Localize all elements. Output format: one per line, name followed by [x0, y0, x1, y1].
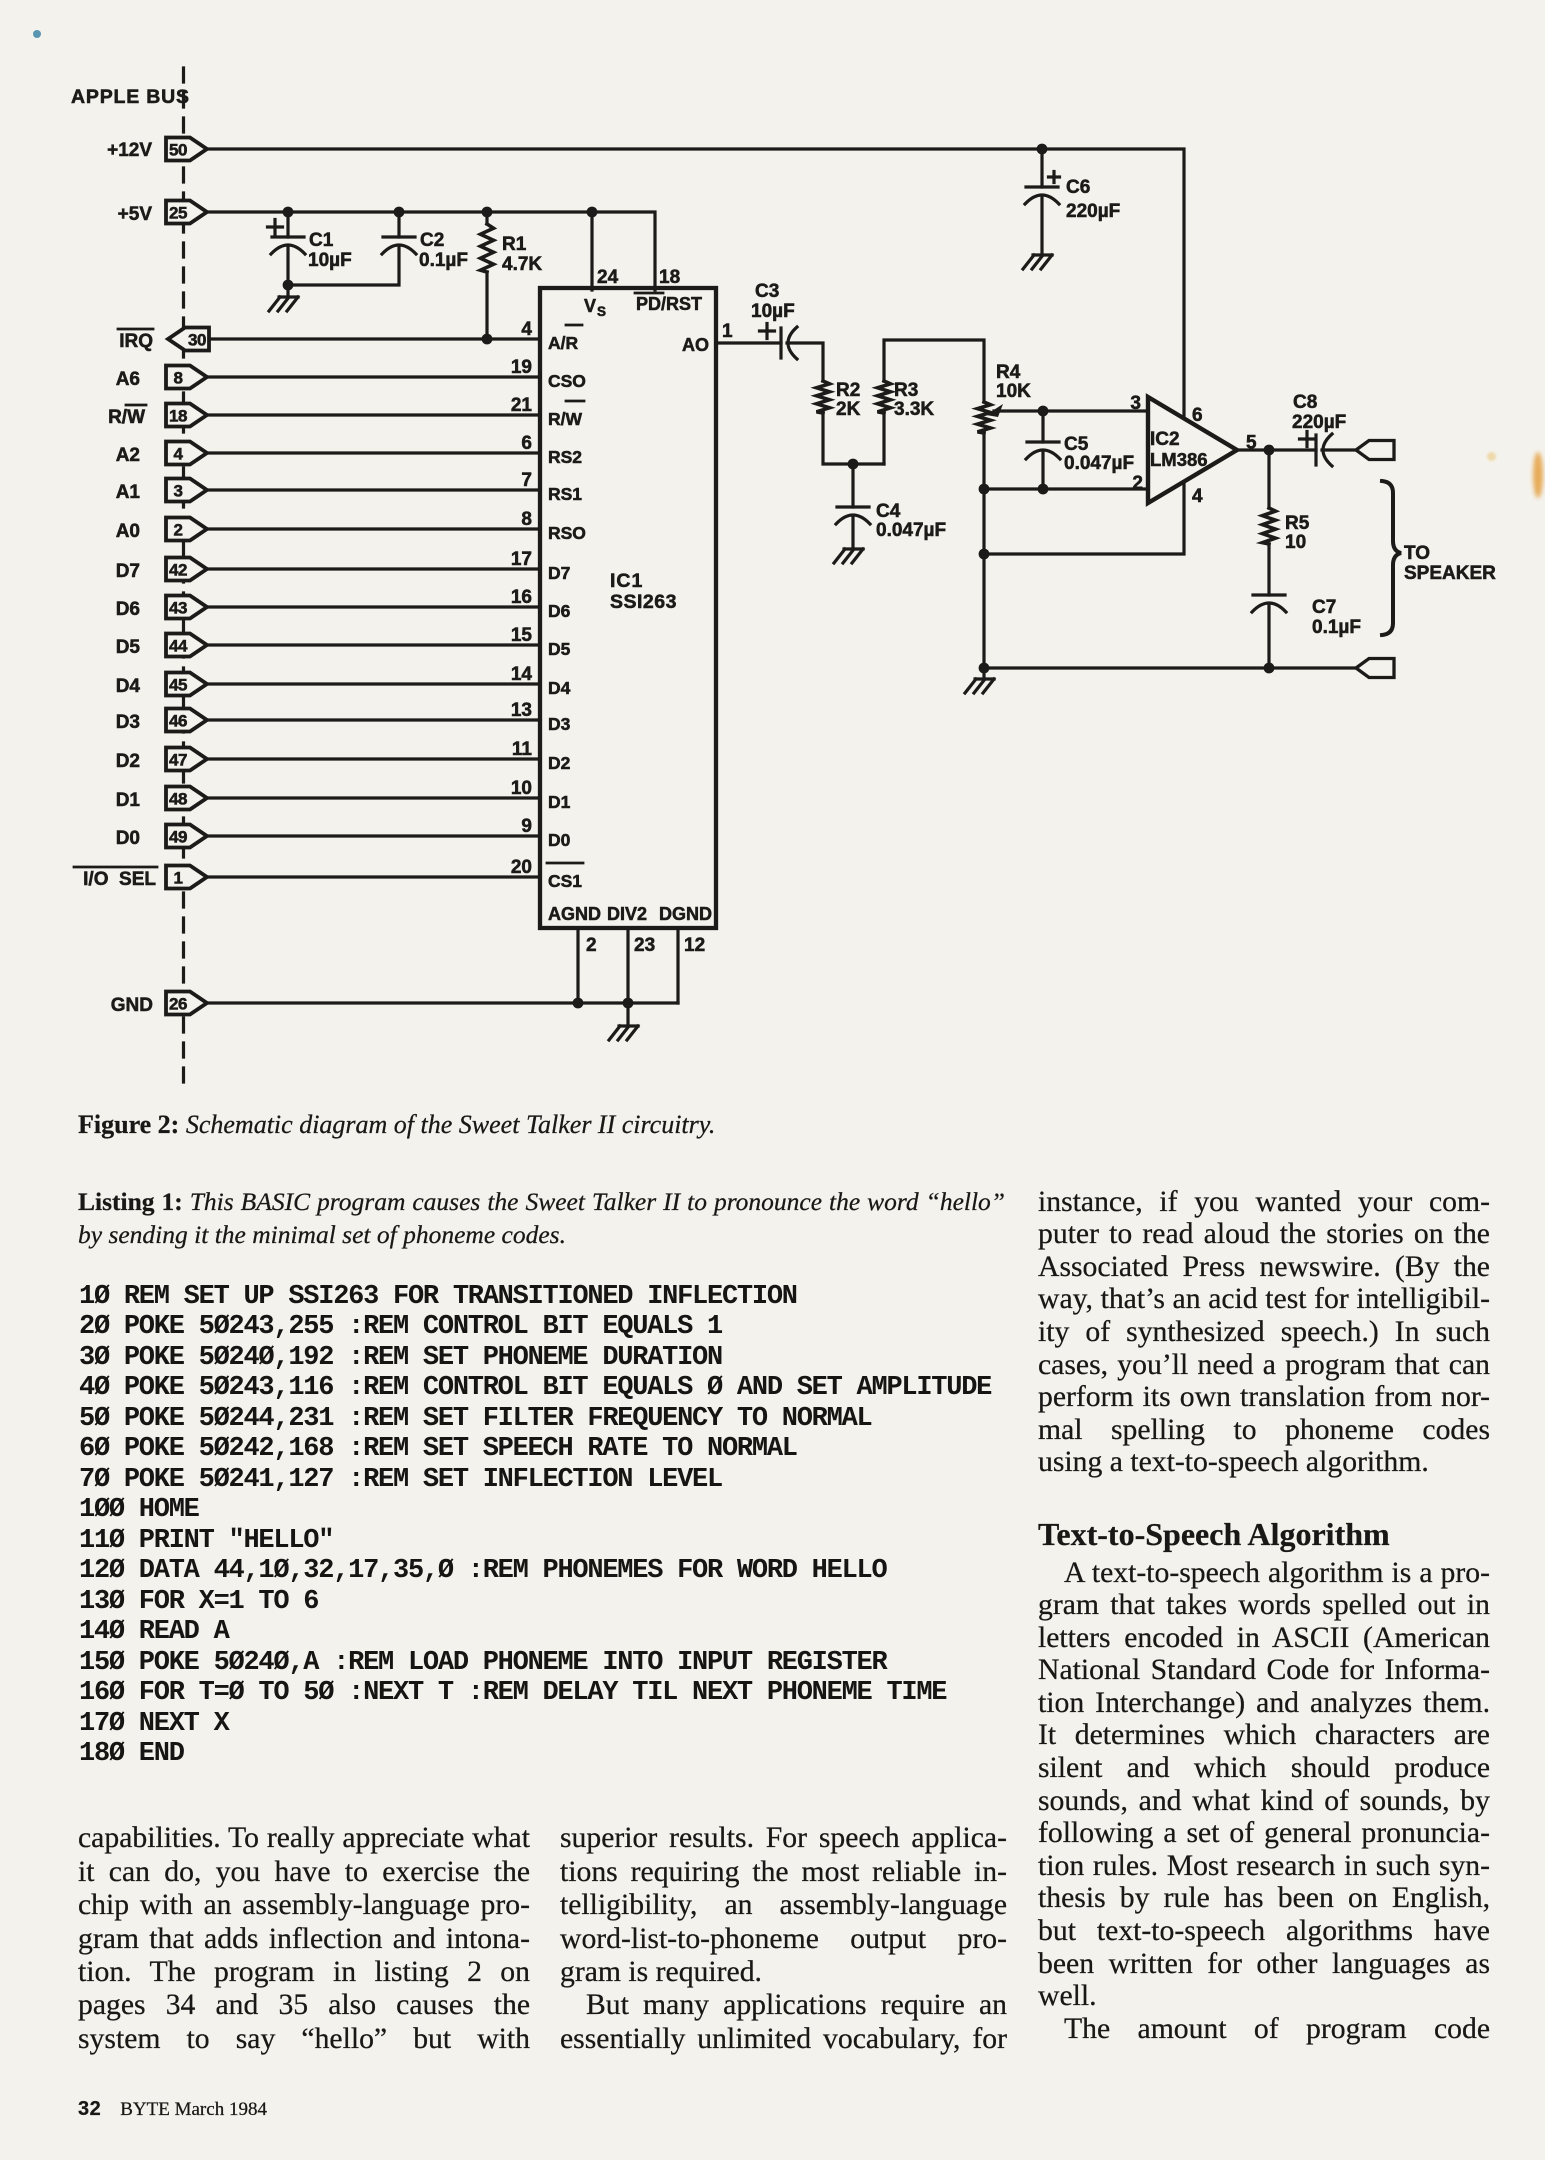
svg-text:2: 2: [1132, 473, 1143, 494]
svg-text:TO: TO: [1404, 543, 1430, 564]
svg-text:44: 44: [169, 637, 188, 656]
svg-text:9: 9: [521, 816, 532, 837]
svg-text:2: 2: [174, 521, 183, 540]
svg-text:46: 46: [169, 712, 187, 731]
svg-text:50: 50: [169, 141, 187, 160]
svg-text:C5: C5: [1064, 434, 1089, 455]
svg-text:D2: D2: [548, 753, 571, 773]
svg-text:I/O SEL: I/O SEL: [83, 869, 156, 890]
svg-text:SSI263: SSI263: [610, 591, 677, 613]
svg-text:5: 5: [1246, 433, 1257, 454]
svg-text:C6: C6: [1066, 177, 1090, 198]
svg-text:15: 15: [511, 625, 533, 646]
svg-text:2: 2: [586, 935, 597, 956]
svg-text:C7: C7: [1312, 597, 1336, 618]
svg-text:CS1: CS1: [548, 871, 582, 891]
svg-text:8: 8: [521, 509, 532, 530]
svg-text:220µF: 220µF: [1066, 201, 1120, 222]
svg-text:A1: A1: [116, 482, 141, 503]
svg-text:S: S: [597, 304, 606, 319]
svg-text:AO: AO: [682, 335, 709, 355]
svg-text:AGND: AGND: [548, 904, 601, 924]
svg-text:3: 3: [1130, 393, 1141, 414]
svg-text:0.047µF: 0.047µF: [876, 520, 946, 541]
svg-text:R4: R4: [996, 362, 1021, 383]
svg-text:8: 8: [174, 369, 183, 388]
svg-text:A6: A6: [116, 369, 140, 390]
svg-text:DGND: DGND: [659, 904, 712, 924]
svg-text:A/R: A/R: [548, 333, 579, 353]
svg-text:R2: R2: [836, 380, 860, 401]
svg-text:43: 43: [169, 599, 187, 618]
svg-text:24: 24: [597, 267, 619, 288]
svg-text:0.1µF: 0.1µF: [419, 250, 468, 271]
svg-text:LM386: LM386: [1150, 449, 1208, 470]
svg-text:4.7K: 4.7K: [502, 254, 542, 275]
svg-text:RS1: RS1: [548, 484, 582, 504]
svg-text:13: 13: [511, 700, 532, 721]
svg-text:GND: GND: [111, 995, 153, 1016]
svg-text:14: 14: [511, 664, 533, 685]
svg-text:0.047µF: 0.047µF: [1064, 453, 1134, 474]
svg-text:D7: D7: [548, 563, 570, 583]
svg-text:16: 16: [511, 587, 532, 608]
svg-text:D6: D6: [116, 599, 140, 620]
svg-text:C1: C1: [309, 230, 334, 251]
svg-text:C3: C3: [755, 281, 779, 302]
svg-text:1: 1: [722, 321, 733, 342]
svg-text:DIV2: DIV2: [607, 904, 647, 924]
svg-text:18: 18: [169, 407, 187, 426]
svg-text:49: 49: [169, 828, 187, 847]
svg-text:D7: D7: [116, 561, 140, 582]
svg-text:4: 4: [174, 445, 184, 464]
svg-text:10: 10: [1285, 532, 1306, 553]
svg-text:10µF: 10µF: [751, 301, 795, 322]
svg-text:R/W: R/W: [548, 409, 583, 429]
svg-text:6: 6: [1192, 405, 1203, 426]
svg-text:R5: R5: [1285, 513, 1310, 534]
svg-text:47: 47: [169, 751, 187, 770]
svg-text:D2: D2: [116, 751, 140, 772]
svg-text:D0: D0: [116, 828, 140, 849]
svg-text:45: 45: [169, 676, 187, 695]
svg-text:220µF: 220µF: [1292, 412, 1346, 433]
svg-text:IRQ: IRQ: [119, 331, 153, 352]
svg-text:20: 20: [511, 857, 532, 878]
svg-text:C2: C2: [420, 230, 444, 251]
svg-text:D0: D0: [548, 830, 571, 850]
svg-text:10: 10: [511, 778, 532, 799]
svg-text:IC2: IC2: [1150, 429, 1180, 450]
svg-text:R3: R3: [894, 380, 918, 401]
svg-text:10µF: 10µF: [308, 250, 352, 271]
svg-text:APPLE BUS: APPLE BUS: [71, 86, 190, 108]
svg-text:D6: D6: [548, 601, 571, 621]
svg-text:D5: D5: [116, 637, 141, 658]
svg-text:C4: C4: [876, 501, 901, 522]
svg-text:3.3K: 3.3K: [894, 399, 934, 420]
svg-text:48: 48: [169, 790, 187, 809]
svg-text:11: 11: [512, 739, 533, 760]
svg-text:PD/RST: PD/RST: [636, 294, 702, 314]
svg-text:2K: 2K: [836, 399, 861, 420]
svg-text:23: 23: [634, 935, 655, 956]
svg-text:21: 21: [511, 395, 533, 416]
svg-text:R/W: R/W: [108, 407, 145, 428]
svg-text:D3: D3: [548, 714, 571, 734]
svg-text:17: 17: [511, 549, 532, 570]
svg-text:IC1: IC1: [610, 570, 643, 592]
svg-text:10K: 10K: [996, 381, 1031, 402]
svg-text:D4: D4: [116, 676, 141, 697]
svg-text:V: V: [584, 296, 596, 316]
svg-text:A0: A0: [116, 521, 140, 542]
svg-text:3: 3: [174, 482, 183, 501]
svg-text:SPEAKER: SPEAKER: [1404, 563, 1496, 584]
svg-text:D4: D4: [548, 678, 571, 698]
svg-text:26: 26: [169, 995, 187, 1014]
svg-text:25: 25: [169, 204, 187, 223]
svg-text:D3: D3: [116, 712, 140, 733]
svg-text:7: 7: [521, 470, 532, 491]
svg-text:D1: D1: [116, 790, 141, 811]
svg-text:C8: C8: [1293, 392, 1317, 413]
svg-text:30: 30: [188, 331, 206, 350]
svg-text:18: 18: [659, 267, 680, 288]
svg-text:RSO: RSO: [548, 523, 586, 543]
svg-text:4: 4: [521, 319, 532, 340]
svg-text:+12V: +12V: [107, 140, 152, 161]
svg-text:R1: R1: [502, 234, 527, 255]
svg-text:6: 6: [521, 433, 532, 454]
svg-text:42: 42: [169, 561, 187, 580]
svg-text:1: 1: [174, 869, 183, 888]
svg-text:19: 19: [511, 357, 532, 378]
svg-text:D5: D5: [548, 639, 571, 659]
svg-text:4: 4: [1192, 486, 1203, 507]
svg-text:RS2: RS2: [548, 447, 582, 467]
svg-text:D1: D1: [548, 792, 571, 812]
svg-text:+5V: +5V: [118, 204, 153, 225]
svg-text:CSO: CSO: [548, 371, 586, 391]
svg-text:12: 12: [684, 935, 705, 956]
svg-text:0.1µF: 0.1µF: [1312, 617, 1361, 638]
svg-text:A2: A2: [116, 445, 140, 466]
